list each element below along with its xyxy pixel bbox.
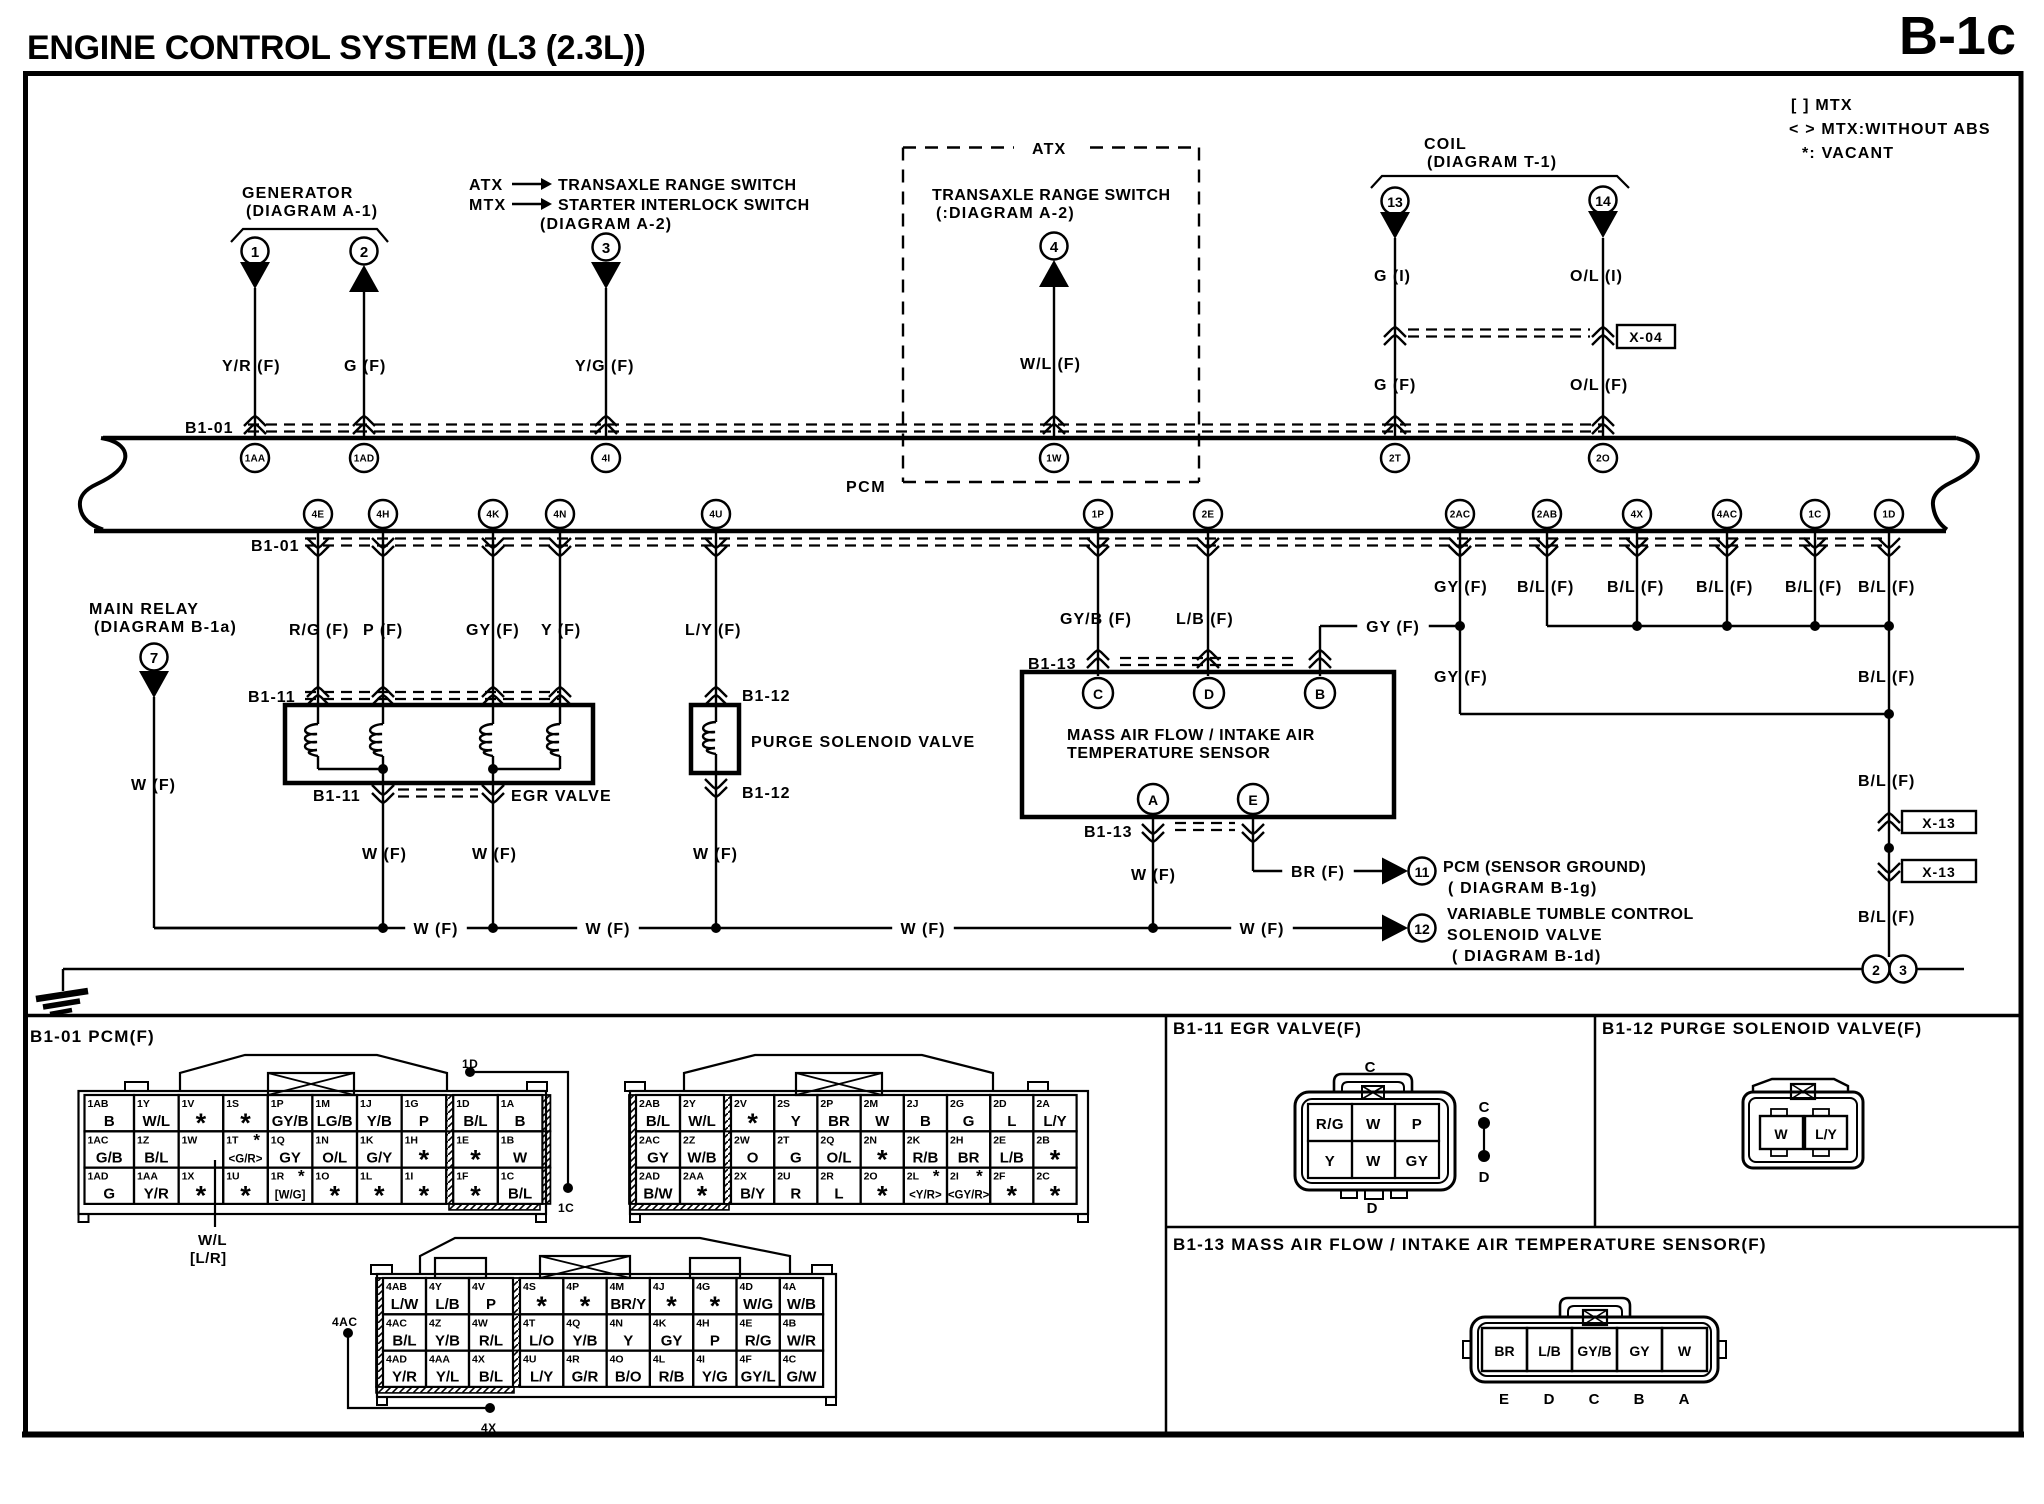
svg-text:G: G [103,1186,115,1203]
wire R/G (F) PCM 4E to EGR [289,528,349,724]
svg-text:1N: 1N [315,1134,328,1146]
arrow down from circle 13 [1380,212,1410,239]
svg-text:2B: 2B [1036,1134,1050,1146]
svg-text:B: B [104,1113,115,1130]
svg-text:R/G: R/G [1316,1116,1344,1133]
svg-text:1C: 1C [1808,510,1821,521]
svg-text:Y (F): Y (F) [541,622,581,639]
svg-text:O: O [747,1149,759,1166]
svg-text:B/W: B/W [643,1186,673,1203]
PCM pin 1AD [350,444,378,472]
svg-text:4AB: 4AB [386,1281,407,1293]
svg-text:EGR VALVE: EGR VALVE [511,788,612,805]
svg-text:MASS AIR FLOW / INTAKE AIR: MASS AIR FLOW / INTAKE AIR [1067,727,1315,744]
svg-text:1D: 1D [1882,510,1895,521]
note ATX - TRANSAXLE RANGE SWITCH [469,177,797,194]
wire O/L coil to PCM pin 2O [1570,238,1628,436]
svg-text:W/L: W/L [688,1113,716,1130]
junction dot GY at 2AC wire [1455,621,1465,631]
wire B/L (F) PCM 2AB [1517,528,1889,626]
svg-text:COIL: COIL [1424,136,1467,153]
svg-text:[L/R]: [L/R] [190,1250,227,1267]
svg-text:4AC: 4AC [332,1315,358,1329]
svg-text:BR: BR [828,1113,850,1130]
label COIL (DIAGRAM T-1) [1424,136,1557,171]
PCM pin 4AC [1713,500,1741,528]
svg-text:L/O: L/O [529,1332,554,1349]
junction dot 1C [1810,621,1820,631]
svg-text:Y: Y [791,1113,801,1130]
arrow down from circle 7 [139,671,169,698]
svg-text:SOLENOID VALVE: SOLENOID VALVE [1447,927,1603,944]
svg-text:1: 1 [251,244,259,261]
svg-text:7: 7 [150,650,158,667]
svg-text:2AB: 2AB [1537,510,1558,521]
connector table B1-01 1x block pins [85,1095,551,1211]
svg-text:Y/R (F): Y/R (F) [222,358,281,375]
svg-text:B/L (F): B/L (F) [1858,579,1915,596]
connector circle 3 [593,234,620,261]
svg-text:B1-01: B1-01 [251,538,300,555]
svg-text:1AC: 1AC [88,1134,109,1146]
svg-text:3: 3 [602,240,610,257]
svg-text:4F: 4F [740,1354,753,1366]
arrow up toward circle 2 [349,265,379,292]
svg-text:*: * [470,1144,481,1174]
svg-text:(DIAGRAM A-1): (DIAGRAM A-1) [246,203,378,220]
svg-text:PURGE SOLENOID VALVE: PURGE SOLENOID VALVE [751,734,975,751]
svg-text:*: * [419,1144,430,1174]
svg-text:X-04: X-04 [1629,329,1663,345]
wire L/B (F) PCM 2E to MAF D [1176,528,1234,676]
svg-text:4D: 4D [740,1281,754,1293]
connector circle 7 [141,644,168,671]
svg-text:B/L (F): B/L (F) [1785,579,1842,596]
svg-text:R: R [790,1186,801,1203]
connector table B1-01 2x block pins [629,1095,1077,1211]
svg-text:1W: 1W [182,1134,198,1146]
svg-text:<GY/R>: <GY/R> [948,1190,990,1202]
svg-text:Y/B: Y/B [572,1332,597,1349]
svg-text:ENGINE CONTROL SYSTEM (L3 (2.3: ENGINE CONTROL SYSTEM (L3 (2.3L)) [27,29,646,67]
bracket over coil connectors [1371,176,1629,188]
PCM pin 1C [1801,500,1829,528]
bracket over generator connectors [231,229,388,242]
chevrons at B1-01 bottom crossings [307,538,1900,556]
svg-text:R/L: R/L [479,1332,503,1349]
svg-text:TEMPERATURE SENSOR: TEMPERATURE SENSOR [1067,745,1270,762]
svg-text:( DIAGRAM B-1g): ( DIAGRAM B-1g) [1448,880,1598,897]
svg-text:L/B (F): L/B (F) [1176,611,1234,628]
svg-text:4I: 4I [602,454,611,465]
svg-text:1S: 1S [226,1098,239,1110]
svg-text:ATX: ATX [469,177,503,194]
svg-text:A: A [1679,1391,1690,1408]
svg-text:2Z: 2Z [683,1134,696,1146]
wire GY/B (F) PCM 1P to MAF C [1060,528,1132,676]
PCM pin 1AA [241,444,269,472]
connector B1-12 top label [742,688,791,705]
svg-text:R/G (F): R/G (F) [289,622,349,639]
connector circle 14 [1590,187,1617,214]
junction dot 4AC [1722,621,1732,631]
svg-text:C: C [1479,1099,1490,1116]
svg-text:B/L: B/L [646,1113,670,1130]
svg-text:B: B [515,1113,526,1130]
svg-text:1D: 1D [456,1098,470,1110]
svg-text:2: 2 [360,244,368,261]
wire B/L (F) PCM 4AC [1696,528,1753,626]
junction dot purge at rail [711,923,721,933]
svg-text:2AC: 2AC [639,1134,660,1146]
svg-text:13: 13 [1387,194,1403,210]
svg-text:B/L (F): B/L (F) [1858,909,1915,926]
svg-text:4AD: 4AD [386,1354,407,1366]
PCM pin 4U [702,500,730,528]
svg-text:4Y: 4Y [429,1281,442,1293]
svg-text:1O: 1O [315,1171,329,1183]
connector B1-12 bottom label [742,785,791,802]
svg-text:4U: 4U [523,1354,536,1366]
svg-text:W (F): W (F) [472,846,517,863]
svg-text:GY (F): GY (F) [1434,579,1488,596]
EGR coil winding 3 [480,724,493,756]
svg-text:B1-01 PCM(F): B1-01 PCM(F) [30,1027,155,1046]
svg-text:O/L (I): O/L (I) [1570,268,1623,285]
svg-text:1I: 1I [405,1171,414,1183]
svg-text:D: D [1367,1200,1378,1217]
svg-text:1L: 1L [360,1171,373,1183]
svg-text:D: D [1544,1391,1555,1408]
svg-text:1AD: 1AD [88,1171,109,1183]
svg-text:2K: 2K [907,1134,921,1146]
svg-text:L/B: L/B [435,1296,459,1313]
arrow up toward circle 4 [1039,260,1069,287]
svg-text:B-1c: B-1c [1899,6,2016,66]
svg-text:1P: 1P [271,1098,284,1110]
svg-text:G (I): G (I) [1374,268,1411,285]
svg-text:W/G: W/G [743,1296,773,1313]
connector circle 11 [1409,858,1436,885]
svg-text:Y: Y [1325,1153,1336,1170]
svg-text:W: W [1366,1153,1381,1170]
arrow down from circle 3 [591,262,621,289]
connector B1-13 bottom dashed line [1084,823,1235,841]
svg-text:*: * [710,1291,721,1321]
svg-text:4A: 4A [783,1281,797,1293]
EGR pin marker C-D [1478,1099,1490,1186]
wire W (F) from EGR coil 3 to ground rail [472,756,517,928]
svg-text:4S: 4S [523,1281,536,1293]
wire B/L (F) PCM 4X [1607,528,1664,626]
connector circle 1 [242,238,269,265]
svg-text:2O: 2O [864,1171,878,1183]
svg-text:<G/R>: <G/R> [229,1153,263,1165]
wire Y/G (F) to PCM pin 4I [575,288,634,436]
svg-text:R/B: R/B [659,1369,685,1386]
svg-text:4H: 4H [376,510,389,521]
svg-text:R/G: R/G [745,1332,772,1349]
MAF / IAT sensor box [1022,672,1394,817]
svg-text:1A: 1A [501,1098,515,1110]
panel label B1-01 PCM(F) [30,1027,155,1046]
svg-text:2D: 2D [993,1098,1007,1110]
label GENERATOR (DIAGRAM A-1) [242,185,378,220]
svg-text:GY: GY [279,1149,301,1166]
EGR connector label D bottom [1367,1200,1378,1217]
MAF pin E [1238,784,1268,814]
wire W/L (F) to PCM pin 1W [1020,287,1081,436]
svg-text:*: * [374,1181,385,1211]
svg-text:4G: 4G [696,1281,710,1293]
wire BR (F) MAF E to circle 11 [1242,814,1383,881]
svg-text:1J: 1J [360,1098,372,1110]
EGR coil winding 1 [305,724,318,756]
wire L/Y (F) PCM 4U to purge valve [685,528,741,722]
svg-text:GY (F): GY (F) [1434,669,1488,686]
connector B1-11 bottom dashed line [313,788,478,805]
svg-text:4K: 4K [653,1317,667,1329]
svg-text:R/B: R/B [912,1149,938,1166]
svg-text:*: * [1050,1181,1061,1211]
svg-text:1K: 1K [360,1134,374,1146]
svg-text:1R: 1R [271,1171,285,1183]
svg-text:L/Y (F): L/Y (F) [685,622,741,639]
svg-text:1T: 1T [226,1134,239,1146]
svg-text:W/R: W/R [787,1332,816,1349]
svg-text:4O: 4O [610,1354,624,1366]
svg-text:Y/G (F): Y/G (F) [575,358,634,375]
svg-text:*: * [976,1167,983,1186]
svg-text:Y/L: Y/L [436,1369,459,1386]
svg-text:O/L: O/L [827,1149,852,1166]
connector B1-01 bottom dashed line [251,538,1889,555]
panel label B1-12 PURGE SOLENOID VALVE(F) [1602,1019,1922,1038]
svg-text:Y/G: Y/G [702,1369,728,1386]
svg-text:TRANSAXLE RANGE SWITCH: TRANSAXLE RANGE SWITCH [558,177,797,194]
svg-text:B1-13: B1-13 [1084,824,1133,841]
wire W (F) from main relay [131,697,383,928]
PCM pin 1P [1084,500,1112,528]
svg-text:*: * [666,1291,677,1321]
svg-text:X-13: X-13 [1922,864,1956,880]
ground symbol [36,991,88,1014]
svg-text:*: * [329,1181,340,1211]
svg-text:4J: 4J [653,1281,665,1293]
MAF sensor connector body [1463,1298,1726,1382]
svg-text:1H: 1H [405,1134,418,1146]
purge solenoid coil [703,722,716,754]
title ENGINE CONTROL SYSTEM (L3 (2.3L)) [27,29,646,67]
note (DIAGRAM A-2) [540,216,672,233]
svg-text:B/L: B/L [463,1113,487,1130]
svg-text:1AB: 1AB [88,1098,109,1110]
wire GY (F) PCM 4K to EGR [466,528,520,724]
svg-text:1Z: 1Z [137,1134,150,1146]
svg-text:W: W [1366,1116,1381,1133]
junction dot MAF A at rail [1148,923,1158,933]
wire G coil to PCM pin 2T [1374,238,1416,436]
svg-text:B1-12: B1-12 [742,785,791,802]
junction dot GY to B/L wire [1884,709,1894,719]
svg-text:*: * [1050,1144,1061,1174]
connector B1-11 top dashed line [248,689,560,706]
dashed box ATX transaxle range switch [903,141,1199,482]
PCM pin 2AB [1533,500,1561,528]
wire W (F) MAF A to ground rail [1131,814,1176,928]
svg-text:2AB: 2AB [639,1098,660,1110]
svg-text:E: E [1499,1391,1509,1408]
svg-text:GY/L: GY/L [741,1369,776,1386]
label MASS AIR FLOW / INTAKE AIR TEMPERATURE SENSOR [1067,727,1315,762]
MAF pin D [1194,678,1224,708]
svg-text:2P: 2P [820,1098,833,1110]
purge solenoid valve connector body [1743,1079,1863,1168]
svg-text:GY: GY [647,1149,669,1166]
label box X-04 [1617,325,1675,348]
svg-text:2E: 2E [993,1134,1006,1146]
svg-text:G/Y: G/Y [366,1149,392,1166]
svg-text:G/W: G/W [786,1369,817,1386]
svg-text:4T: 4T [523,1317,536,1329]
svg-text:BR/Y: BR/Y [610,1296,646,1313]
svg-text:GY: GY [1406,1153,1429,1170]
connector table B1-01 4x block shell [371,1238,836,1405]
svg-text:*: * [419,1181,430,1211]
arrow to circle 12 [1382,915,1408,942]
wire GY (F) MAF B to PCM 2AC wire [1309,617,1460,676]
svg-text:4AA: 4AA [429,1354,450,1366]
label PCM SENSOR GROUND (DIAGRAM B-1g) [1443,859,1646,897]
PCM pin 4H [369,500,397,528]
svg-text:GENERATOR: GENERATOR [242,185,354,202]
wire joining coil 4 to coil 3 [493,756,560,769]
svg-text:B: B [920,1113,931,1130]
svg-text:1C: 1C [558,1201,574,1215]
svg-text:W (F): W (F) [414,921,459,938]
PCM pin 4N [546,500,574,528]
svg-text:1AD: 1AD [354,454,375,465]
svg-text:GY (F): GY (F) [1366,619,1420,636]
svg-text:L: L [834,1186,843,1203]
junction dot EGR3 at rail [488,923,498,933]
svg-text:4C: 4C [783,1354,797,1366]
svg-text:*: * [196,1181,207,1211]
ground rail bottom wire [63,969,1964,991]
connector X-13 upper [1878,811,1976,833]
junction dot coils 3-4 [488,764,498,774]
svg-text:<Y/R>: <Y/R> [909,1190,942,1202]
purge solenoid valve box [691,705,739,773]
connector X-04 dashed crossing [1408,330,1590,337]
svg-text:1W: 1W [1046,454,1062,465]
note MTX - STARTER INTERLOCK SWITCH [469,197,810,214]
svg-text:4W: 4W [472,1317,488,1329]
svg-text:*: * [240,1181,251,1211]
svg-text:B: B [1634,1391,1645,1408]
svg-text:(DIAGRAM B-1a): (DIAGRAM B-1a) [94,619,237,636]
svg-text:W (F): W (F) [362,846,407,863]
EGR valve connector pin grid [1308,1104,1439,1178]
svg-text:1AA: 1AA [137,1171,158,1183]
svg-text:A: A [1148,792,1158,808]
MAF pin B [1305,678,1335,708]
svg-text:G: G [963,1113,975,1130]
svg-text:TRANSAXLE RANGE SWITCH: TRANSAXLE RANGE SWITCH [932,187,1171,204]
connector circle 12 [1409,915,1436,942]
svg-text:L/W: L/W [391,1296,419,1313]
svg-text:B1-12: B1-12 [742,688,791,705]
svg-text:W/B: W/B [787,1296,816,1313]
svg-text:4E: 4E [312,510,325,521]
svg-text:W/L: W/L [143,1113,171,1130]
svg-text:B/Y: B/Y [740,1186,765,1203]
svg-text:*: * [1007,1181,1018,1211]
svg-text:*: * [580,1291,591,1321]
svg-text:*: * [253,1130,260,1149]
svg-text:4U: 4U [709,510,722,521]
svg-text:1AA: 1AA [245,454,266,465]
svg-text:B/L (F): B/L (F) [1858,669,1915,686]
svg-text:2R: 2R [820,1171,834,1183]
label PCM [846,479,886,496]
svg-text:2M: 2M [864,1098,879,1110]
connector circle 3 ground [1890,956,1917,983]
svg-text:W (F): W (F) [693,846,738,863]
wire Y/R (F) from generator to PCM pin 1AA [222,288,281,436]
svg-text:W (F): W (F) [131,777,176,794]
svg-text:E: E [1248,792,1257,808]
svg-text:14: 14 [1595,193,1611,209]
svg-text:1M: 1M [315,1098,330,1110]
svg-text:*: * [877,1144,888,1174]
label VARIABLE TUMBLE CONTROL SOLENOID VALVE (DIAGRAM B-1d) [1447,906,1694,965]
svg-text:LG/B: LG/B [317,1113,353,1130]
svg-text:4B: 4B [783,1317,797,1329]
svg-text:4Q: 4Q [566,1317,580,1329]
svg-text:X-13: X-13 [1922,815,1956,831]
connector circle 2 ground [1863,956,1890,983]
svg-text:*: VACANT: *: VACANT [1802,145,1894,162]
svg-text:ATX: ATX [1032,141,1066,158]
PCM pin 4I [592,444,620,472]
EGR valve box [285,705,593,783]
svg-text:Y/R: Y/R [144,1186,169,1203]
svg-text:W (F): W (F) [1240,921,1285,938]
svg-text:P: P [710,1332,720,1349]
svg-text:Y: Y [623,1332,633,1349]
MAF pin A [1138,784,1168,814]
PCM pin 4X [1623,500,1651,528]
svg-text:B1-13 MASS AIR FLOW / INTAKE A: B1-13 MASS AIR FLOW / INTAKE AIR TEMPERA… [1173,1235,1767,1254]
connector circle 2 [351,238,378,265]
svg-text:2W: 2W [734,1134,750,1146]
svg-text:B/O: B/O [615,1369,642,1386]
svg-text:B/L (F): B/L (F) [1517,579,1574,596]
svg-text:1X: 1X [182,1171,195,1183]
svg-text:1V: 1V [182,1098,195,1110]
svg-text:G/B: G/B [96,1149,123,1166]
svg-text:2X: 2X [734,1171,747,1183]
svg-text:GY/B: GY/B [272,1113,309,1130]
svg-text:GY/B: GY/B [1577,1343,1611,1359]
ground rail wire W (F) [154,919,1383,938]
svg-text:GY: GY [1629,1343,1650,1359]
svg-text:B/L (F): B/L (F) [1696,579,1753,596]
svg-text:4V: 4V [472,1281,485,1293]
EGR connector label C top [1365,1059,1376,1076]
PCM pin 2O [1589,444,1617,472]
